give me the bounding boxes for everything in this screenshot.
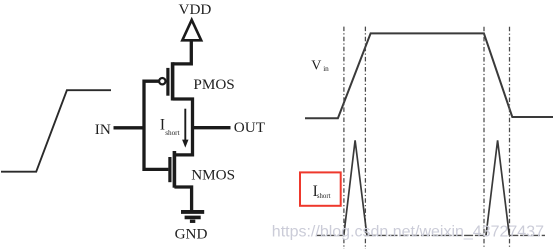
transistor NMOS channel bar [173,151,177,188]
arrow I short current direction [184,109,186,141]
svg-text:OUT: OUT [234,119,266,136]
svg-text:NMOS: NMOS [191,167,235,184]
marker dash-dot line t3 [483,27,485,249]
svg-text:https://blog.csdn.net/weixin_4: https://blog.csdn.net/weixin_43727437 [272,223,544,240]
waveform I short spike 1 [344,140,367,235]
marker dash-dot line t1 [343,27,345,249]
ground symbol [181,212,204,221]
wire IN [114,126,146,129]
transistor PMOS drain lead + output node bar + NMOS drain lead [173,99,193,155]
svg-text:PMOS: PMOS [193,76,234,93]
annotation red box [300,172,341,205]
svg-text:GND: GND [175,225,208,242]
svg-text:short: short [317,193,331,200]
waveform Vin trapezoid [305,33,553,118]
wire OUT [194,126,231,129]
marker dash-dot line t4 [509,27,511,249]
waveform I short baseline middle segment [367,234,486,236]
svg-text:short: short [165,129,179,137]
transistor NMOS source lead + wire to ground [174,187,191,210]
svg-text:VDD: VDD [179,1,212,18]
waveform I short spike 2 [486,140,509,235]
wire gate bus (IN node to PMOS/NMOS gates) [144,81,168,169]
op-amp bubble: PMOS gate bubble [159,78,165,84]
marker dash-dot line t2 [364,27,366,249]
waveform I short baseline left segment [316,234,344,236]
svg-text:V: V [311,58,321,73]
power VDD symbol (triangle) [182,20,201,40]
transistor PMOS gate bar [166,68,169,96]
transistor NMOS gate bar [168,157,171,182]
svg-text:IN: IN [95,121,111,138]
waveform I short baseline right segment [509,234,545,236]
transistor PMOS channel bar [171,62,175,100]
transistor PMOS source lead + wire to VDD [173,40,192,64]
svg-text:in: in [323,65,329,73]
input ramp waveform [1,90,111,172]
